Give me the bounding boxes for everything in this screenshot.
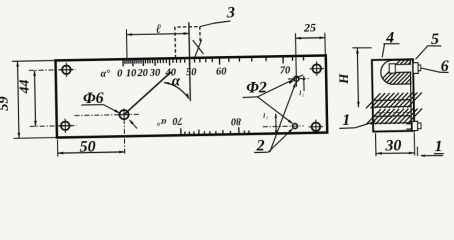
dimension H (357, 48, 358, 107)
small dimension l1 at bottom hole (275, 114, 277, 135)
second arrow to pivot hole (130, 120, 137, 129)
pivot hole phi-6 (119, 110, 128, 119)
dimension 25 (295, 37, 325, 40)
dim 59 top extension (12, 59, 55, 62)
svg-text:α°: α° (157, 116, 166, 127)
svg-text:1: 1 (434, 138, 442, 155)
svg-text:80: 80 (231, 115, 241, 126)
phantom slider box (item 3) (175, 27, 200, 59)
alpha angle arc (164, 82, 189, 99)
dimension line 44 (35, 70, 36, 126)
svg-text:50: 50 (186, 67, 197, 78)
svg-text:α°: α° (100, 69, 110, 80)
corner hole top-right (312, 64, 321, 73)
dimension 30 (376, 152, 414, 155)
ray from pivot at angle alpha (123, 72, 171, 115)
svg-text:30: 30 (149, 68, 161, 79)
small hole phi-2 bottom (292, 124, 297, 129)
dim 50 left extension (57, 140, 59, 157)
bottom scale tick marks (180, 128, 182, 135)
side view outer outline (372, 59, 414, 131)
svg-text:α: α (172, 73, 181, 89)
dimension line l (127, 33, 189, 34)
dimension line 59 (18, 61, 19, 138)
dimension 50 (58, 152, 125, 153)
svg-text:20: 20 (136, 68, 148, 79)
dimension l extension line (125, 29, 128, 60)
upper plate section (hatched) (373, 100, 411, 108)
svg-text:59: 59 (0, 96, 12, 111)
side view inner right edge (410, 59, 411, 131)
svg-text:1: 1 (302, 93, 304, 98)
svg-text:3: 3 (226, 4, 235, 21)
plate outline (main view of template, item 1) (56, 55, 328, 137)
small dimension l1 at top hole (303, 76, 305, 91)
bolt (item 5) in slot (389, 64, 412, 72)
dimension 25 right extension (324, 33, 326, 55)
svg-text:H: H (336, 73, 351, 85)
extra right extension (416, 146, 418, 155)
pointer reference line at 50 (189, 22, 190, 101)
bottom phi2 centerline (263, 125, 304, 128)
dimension 25 left extension through phi2 hole (294, 33, 297, 86)
lower plate section (hatched) (373, 116, 411, 124)
dim 59 bottom extension (13, 137, 56, 140)
svg-text:70: 70 (280, 65, 291, 76)
svg-text:1: 1 (342, 112, 350, 129)
svg-text:25: 25 (303, 20, 316, 34)
pivot hole horizontal centerline (75, 114, 141, 115)
svg-text:44: 44 (18, 79, 33, 94)
top phi2 centerline (288, 78, 309, 80)
slider pointer notch (193, 40, 204, 54)
bottom screw (406, 123, 412, 125)
nut (item 6) (413, 63, 418, 74)
svg-text:70: 70 (172, 115, 182, 126)
small hole phi-2 top (294, 76, 299, 81)
svg-text:30: 30 (384, 137, 401, 154)
svg-text:60: 60 (216, 67, 227, 78)
corner hole bottom-right (312, 122, 321, 131)
pivot hole vertical centerline / 50-dim extension (123, 119, 126, 155)
dim 30 right extension (413, 133, 415, 156)
svg-text:1: 1 (266, 115, 268, 120)
dim H top extension (352, 47, 371, 50)
svg-text:10: 10 (126, 68, 137, 79)
corner hole bottom-left (61, 121, 70, 130)
svg-text:50: 50 (79, 138, 95, 155)
corner hole top-left (62, 65, 71, 74)
top scale tick marks (122, 59, 124, 66)
dim 30 left extension (375, 133, 377, 156)
dim 44 top extension (hole centerline) (29, 69, 76, 72)
svg-text:ℓ: ℓ (156, 22, 162, 36)
gap centerline (377, 111, 409, 114)
dim 44 bottom extension (hole centerline) (30, 125, 77, 128)
